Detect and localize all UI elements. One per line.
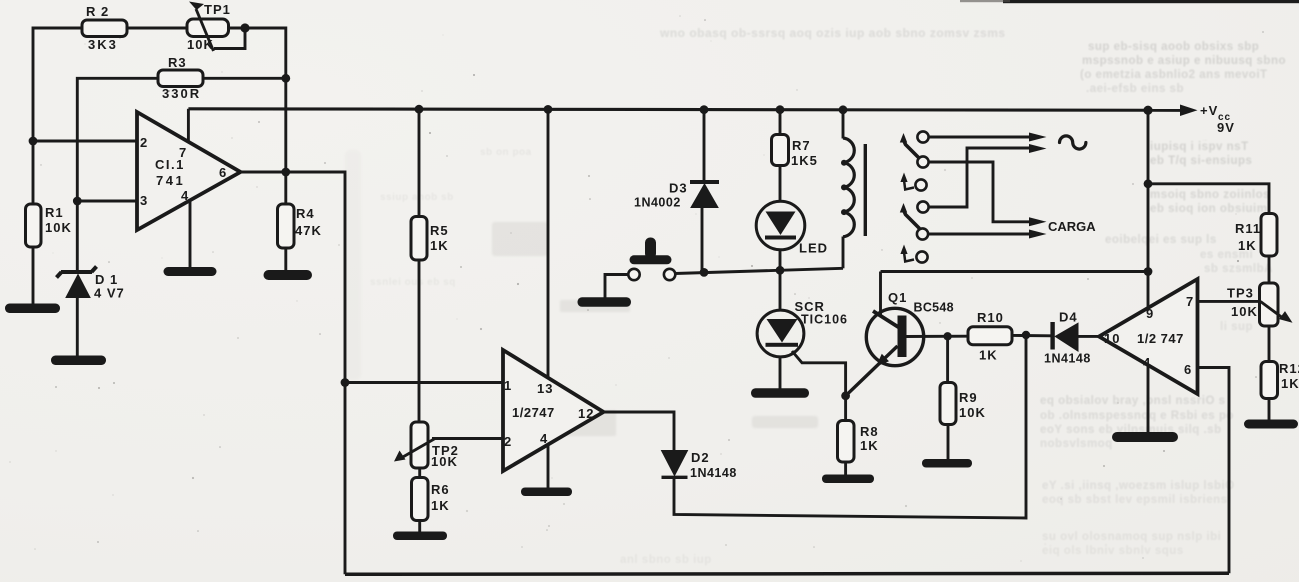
svg-text:4: 4 (181, 188, 189, 203)
svg-text:eoq sb sbst lev epsmil isbrien: eoq sb sbst lev epsmil isbriensl (1042, 494, 1231, 506)
svg-text:10: 10 (1104, 331, 1120, 346)
svg-text:R5: R5 (430, 223, 449, 238)
svg-text:ssnlei ous eb sq: ssnlei ous eb sq (370, 277, 456, 288)
svg-text:1N4002: 1N4002 (634, 196, 681, 210)
svg-text:R11: R11 (1235, 221, 1261, 236)
svg-text:eb T/q si-ensiups: eb T/q si-ensiups (1150, 155, 1252, 167)
svg-text:741: 741 (156, 173, 185, 188)
svg-text:eoibelqei es sup ls: eoibelqei es sup ls (1105, 234, 1217, 246)
svg-text:Q1: Q1 (888, 290, 907, 305)
svg-text:R3: R3 (168, 55, 187, 70)
svg-text:D3: D3 (669, 181, 688, 196)
svg-text:13: 13 (537, 381, 553, 396)
svg-text:R6: R6 (431, 482, 450, 497)
svg-text:1K: 1K (979, 348, 998, 363)
svg-text:anl sbno sb iup: anl sbno sb iup (620, 554, 712, 566)
svg-text:R 2: R 2 (86, 4, 109, 19)
svg-text:3K3: 3K3 (88, 37, 118, 52)
svg-text:4: 4 (540, 431, 548, 446)
svg-text:330R: 330R (162, 86, 201, 101)
svg-text:1K: 1K (431, 498, 450, 513)
svg-text:.aei-efsb eins sb: .aei-efsb eins sb (1086, 83, 1184, 95)
svg-text:10K: 10K (1231, 304, 1258, 319)
svg-text:1K: 1K (860, 438, 879, 453)
svg-text:(o emetzia asbnlio2 ans mevoiT: (o emetzia asbnlio2 ans mevoiT (1080, 69, 1268, 81)
svg-text:1K: 1K (1238, 238, 1257, 253)
svg-text:TP3: TP3 (1227, 286, 1254, 301)
svg-text:TIC106: TIC106 (801, 313, 848, 327)
svg-text:1/2747: 1/2747 (512, 405, 555, 420)
svg-text:CI.1: CI.1 (155, 157, 185, 172)
svg-text:nobsvlsmoq: nobsvlsmoq (1040, 438, 1113, 450)
svg-text:10K: 10K (187, 37, 214, 52)
svg-text:1: 1 (504, 378, 512, 393)
svg-text:10K: 10K (431, 454, 458, 469)
svg-text:9V: 9V (1217, 120, 1235, 135)
svg-text:R10: R10 (977, 310, 1004, 325)
svg-text:1/2 747: 1/2 747 (1137, 331, 1184, 346)
svg-text:2: 2 (140, 135, 148, 150)
svg-text:1K: 1K (430, 238, 449, 253)
svg-text:R1: R1 (45, 205, 64, 220)
svg-text:eb sioq ion obsiuim: eb sioq ion obsiuim (1150, 203, 1267, 215)
svg-text:li sup: li sup (1220, 321, 1253, 333)
svg-text:2: 2 (504, 434, 512, 449)
svg-text:sb on poa: sb on poa (480, 147, 532, 158)
svg-text:eq obsialov bray ,bnsl nssriO: eq obsialov bray ,bnsl nssriO s (1040, 395, 1226, 407)
svg-text:1K5: 1K5 (791, 153, 818, 168)
svg-text:R4: R4 (296, 206, 315, 221)
svg-text:ob .olnsmspessnoq e Rsbi es po: ob .olnsmspessnoq e Rsbi es po (1040, 410, 1234, 422)
svg-text:CARGA: CARGA (1048, 219, 1096, 234)
svg-text:R7: R7 (792, 138, 811, 153)
svg-text:su ovl olosnamoq sup nslp ibi: su ovl olosnamoq sup nslp ibi (1042, 531, 1221, 543)
svg-text:R8: R8 (860, 424, 879, 439)
svg-text:6: 6 (1184, 362, 1192, 377)
svg-text:D4: D4 (1059, 310, 1078, 325)
svg-text:1N4148: 1N4148 (1044, 352, 1091, 366)
svg-text:R9: R9 (959, 390, 978, 405)
svg-text:10K: 10K (45, 220, 72, 235)
svg-text:9: 9 (1146, 306, 1154, 321)
svg-text:12: 12 (578, 406, 594, 421)
svg-text:eY .si ,iinsq ,woezsm islup ls: eY .si ,iinsq ,woezsm islup lsbiO (1042, 480, 1235, 492)
svg-text:3: 3 (140, 193, 148, 208)
svg-text:e̊iq ols lbni̇v sbnlv squs: e̊iq ols lbni̇v sbnlv squs (1042, 543, 1184, 557)
svg-text:4 V7: 4 V7 (94, 286, 125, 301)
svg-text:D2: D2 (691, 450, 710, 465)
svg-text:wno obasq ob-ssrsq aoq ozis iu: wno obasq ob-ssrsq aoq ozis iup aob sbno… (659, 26, 1006, 40)
svg-text:R12: R12 (1279, 361, 1299, 376)
svg-text:7: 7 (1186, 294, 1194, 309)
svg-text:10K: 10K (959, 405, 986, 420)
svg-text:LED: LED (799, 241, 828, 256)
svg-text:1N4148: 1N4148 (690, 466, 737, 480)
svg-text:sup eb-sisq aoob obsixs sbp: sup eb-sisq aoob obsixs sbp (1088, 41, 1259, 53)
svg-text:msoiq sbno zoiinlos: msoiq sbno zoiinlos (1150, 189, 1270, 201)
svg-text:4: 4 (1143, 355, 1151, 370)
svg-text:+V: +V (1200, 103, 1218, 118)
svg-text:47K: 47K (295, 223, 322, 238)
svg-text:6: 6 (219, 165, 227, 180)
svg-text:mspssnob e asiup e nibuusq sbn: mspssnob e asiup e nibuusq sbno (1082, 55, 1286, 67)
svg-text:ssiup anob sb: ssiup anob sb (380, 192, 454, 203)
svg-text:1K: 1K (1281, 376, 1299, 391)
svg-text:TP1: TP1 (204, 2, 231, 17)
svg-text:sb szsmlbA: sb szsmlbA (1204, 263, 1273, 275)
svg-text:BC548: BC548 (914, 301, 954, 315)
svg-text:iupisq i is̃pv nsT: iupisq i is̃pv nsT (1150, 140, 1249, 153)
